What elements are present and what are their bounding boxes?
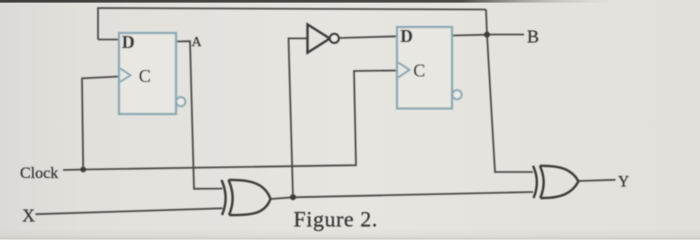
wire: clock line from label to U2 clock input bbox=[63, 71, 397, 171]
U1 body bbox=[119, 33, 176, 114]
wire: into D input of U1 bbox=[98, 39, 119, 41]
wire: top feedback from node B to D of U1 bbox=[98, 8, 486, 40]
wire: X input to XOR U4 bottom input bbox=[36, 208, 223, 214]
U4 input double-arc bbox=[222, 180, 226, 215]
wire: junction up to inverter U3 input bbox=[289, 38, 308, 197]
U3 output bubble bbox=[330, 34, 339, 43]
wire: vertical from top wire through node B down to XOR U5 top input bbox=[486, 10, 533, 173]
U2 body bbox=[397, 27, 452, 109]
svg-text:X: X bbox=[22, 206, 35, 226]
D flip-flop U1 bbox=[119, 32, 185, 114]
svg-text:C: C bbox=[413, 61, 425, 81]
XOR gate U4 bbox=[222, 180, 271, 215]
clock junction dot bbox=[80, 167, 86, 173]
node B junction dot bbox=[484, 32, 490, 38]
U2 inverted output bubble bbox=[452, 90, 461, 99]
XOR gate U5 bbox=[533, 166, 579, 198]
svg-text:D: D bbox=[122, 32, 135, 52]
U2 clock triangle bbox=[398, 63, 409, 78]
wire: XOR U5 output to label Y bbox=[579, 180, 616, 181]
wire: XOR U4 output to junction bbox=[271, 197, 294, 199]
svg-text:C: C bbox=[139, 66, 151, 86]
svg-text:Figure 2.: Figure 2. bbox=[294, 207, 378, 232]
U1 clock triangle bbox=[120, 69, 130, 82]
bottom shade bbox=[0, 229, 700, 239]
wire: inverter U3 output to D of U2 bbox=[339, 36, 397, 38]
wire: node B to label B bbox=[487, 34, 524, 36]
wire: U2 output to node B bbox=[452, 34, 487, 37]
svg-text:Y: Y bbox=[618, 173, 629, 190]
svg-text:D: D bbox=[400, 26, 413, 46]
inverter U3 bbox=[308, 24, 339, 52]
wire: U1 output A down to XOR U4 top input bbox=[176, 41, 223, 189]
svg-text:B: B bbox=[527, 27, 539, 47]
photo top edge band bbox=[0, 0, 615, 3]
U1 inverted output bubble bbox=[176, 97, 185, 106]
wire: clock branch up to U1 clock input bbox=[82, 77, 119, 170]
svg-text:A: A bbox=[192, 35, 203, 50]
svg-text:Clock: Clock bbox=[20, 165, 58, 182]
U4 body bbox=[229, 180, 271, 215]
junction dot at XOR U4 output bbox=[290, 194, 296, 200]
D flip-flop U2 bbox=[397, 26, 462, 109]
wire: junction to XOR U5 bottom input bbox=[293, 192, 533, 197]
U5 input double-arc bbox=[533, 166, 537, 198]
U5 body bbox=[540, 166, 579, 198]
U3 triangle bbox=[308, 24, 330, 52]
